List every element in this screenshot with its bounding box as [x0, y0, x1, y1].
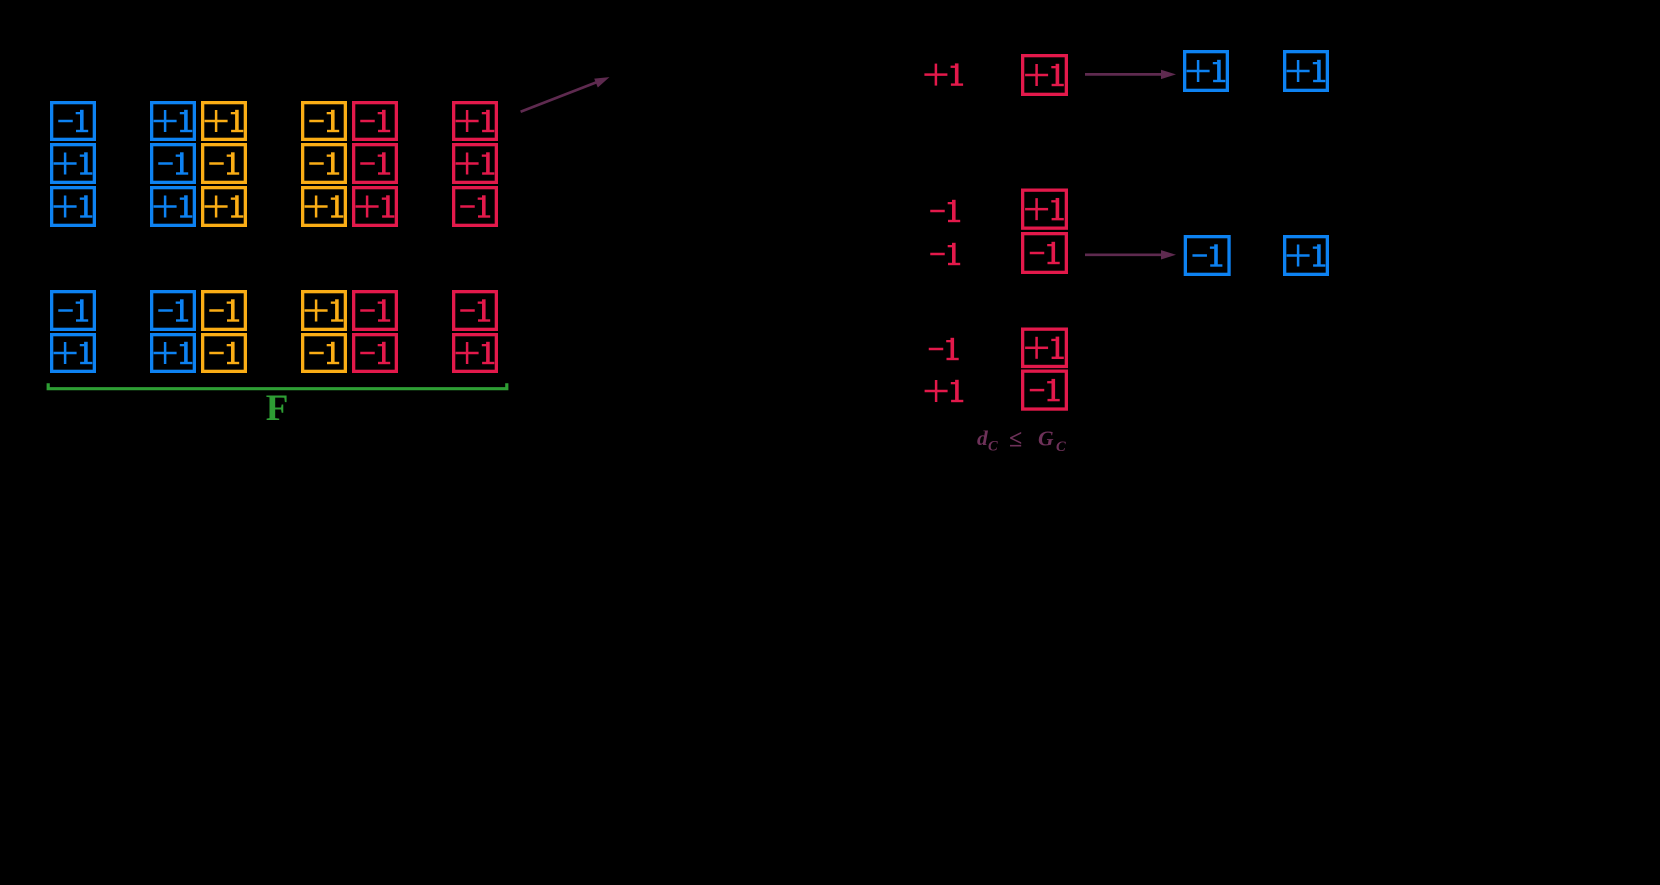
label -1 (bottom stack row1): [929, 338, 959, 360]
blue result box +1 (top row col1): [1185, 52, 1228, 91]
red vector middle box +1: [1023, 190, 1067, 228]
matrix F top block cell col6 row3 value -1: [454, 188, 497, 226]
matrix F bottom block cell col3 row2 value -1: [203, 335, 246, 372]
arrow middle (red vector to blue result): [1085, 250, 1176, 259]
red vector bottom box +1: [1023, 329, 1067, 366]
matrix F top block cell col2 row3 value +1: [152, 188, 195, 226]
matrix F top block cell col6 row1 value +1: [454, 103, 497, 140]
svg-text:≤: ≤: [1009, 427, 1022, 453]
math label d_C &lt;= G_C: [977, 426, 1066, 455]
matrix F top block cell col4 row1 value -1: [303, 103, 346, 140]
diagonal arrow: [521, 77, 610, 112]
arrow top (red vector to blue result): [1085, 70, 1176, 79]
matrix F top block cell col6 row2 value +1: [454, 145, 497, 183]
green bracket under matrix F: [48, 383, 507, 389]
matrix F top block cell col2 row2 value -1: [152, 145, 195, 183]
matrix F top block cell col4 row3 value +1: [303, 188, 346, 226]
label +1 (bottom stack row2): [925, 380, 964, 402]
matrix F bottom block cell col4 row2 value -1: [303, 335, 346, 372]
matrix F top block cell col5 row3 value +1: [354, 188, 397, 226]
matrix F top block cell col3 row2 value -1: [203, 145, 246, 183]
svg-text:F: F: [266, 388, 289, 429]
red vector middle box -1: [1023, 234, 1067, 273]
matrix F top block cell col1 row1 value -1: [52, 103, 95, 140]
matrix F bottom block cell col2 row1 value -1: [152, 292, 195, 330]
matrix F bottom block cell col6 row1 value -1: [454, 292, 497, 330]
blue result box +1 (bottom row col2): [1285, 237, 1328, 275]
label -1 (middle stack row2): [930, 243, 960, 265]
matrix F bottom block cell col1 row1 value -1: [52, 292, 95, 330]
matrix F bottom block cell col5 row2 value -1: [354, 335, 397, 372]
matrix F top block cell col3 row3 value +1: [203, 188, 246, 226]
matrix F top block cell col5 row2 value -1: [354, 145, 397, 183]
matrix F top block cell col5 row1 value -1: [354, 103, 397, 140]
svg-text:C: C: [1056, 439, 1066, 455]
svg-text:C: C: [988, 439, 998, 455]
matrix F bottom block cell col4 row1 value +1: [303, 292, 346, 330]
matrix F bottom block cell col3 row1 value -1: [203, 292, 246, 330]
red vector box +1 (top): [1023, 56, 1067, 95]
label -1 (middle stack row1): [930, 200, 960, 222]
label +1 (top row): [924, 63, 963, 85]
matrix F top block cell col1 row3 value +1: [52, 188, 95, 226]
blue result box +1 (top row col2): [1285, 52, 1328, 91]
blue result box -1 (bottom row col1): [1185, 237, 1229, 275]
matrix F top block cell col2 row1 value +1: [152, 103, 195, 140]
svg-text:G: G: [1038, 427, 1054, 451]
matrix F bottom block cell col2 row2 value +1: [152, 335, 195, 372]
red vector bottom box -1: [1023, 371, 1067, 409]
matrix F bottom block cell col6 row2 value +1: [454, 335, 497, 372]
matrix F top block cell col3 row1 value +1: [203, 103, 246, 140]
matrix F top block cell col4 row2 value -1: [303, 145, 346, 183]
matrix F bottom block cell col5 row1 value -1: [354, 292, 397, 330]
matrix F top block cell col1 row2 value +1: [52, 145, 95, 183]
matrix F bottom block cell col1 row2 value +1: [52, 335, 95, 372]
